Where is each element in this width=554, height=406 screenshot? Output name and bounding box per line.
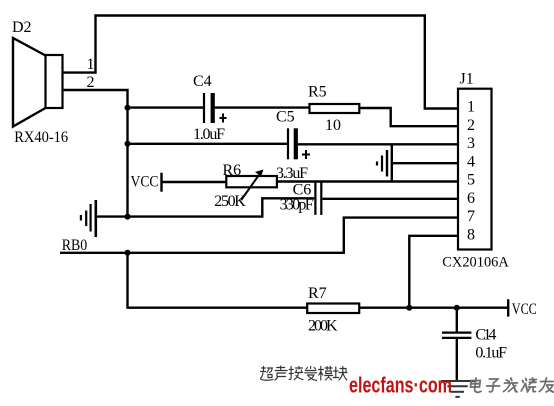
ground tie line pins3-5 [391, 144, 393, 183]
junction dot at ground rail [125, 214, 131, 220]
svg-text:R5: R5 [308, 84, 327, 101]
capacitor C6 [280, 182, 322, 215]
title 超声接受模块 (hand-drawn strokes) [261, 366, 348, 381]
svg-text:C4: C4 [193, 73, 212, 90]
junction dot at C4 input [125, 105, 131, 111]
svg-text:200K: 200K [308, 318, 338, 335]
svg-text:4: 4 [467, 153, 475, 170]
svg-text:2: 2 [87, 74, 95, 91]
svg-text:1.0uF: 1.0uF [193, 126, 225, 143]
svg-text:7: 7 [467, 208, 475, 225]
ground bottom right [441, 381, 475, 397]
char 超 [261, 367, 274, 381]
svg-text:5: 5 [467, 172, 475, 189]
wire VCC to R6 [162, 181, 226, 183]
svg-text:J1: J1 [460, 71, 474, 88]
svg-text:250K: 250K [214, 193, 246, 210]
char 块 [333, 367, 347, 381]
char 烧 [521, 378, 537, 392]
svg-text:CX20106A: CX20106A [442, 255, 509, 271]
ground left [81, 200, 96, 237]
char 声 [275, 366, 287, 380]
wire J1 pin8 down [409, 236, 458, 308]
svg-text:RB0: RB0 [62, 237, 87, 254]
connector J1 [442, 71, 509, 271]
wire R7 to VCC [359, 307, 507, 309]
svg-text:8: 8 [467, 226, 475, 243]
svg-text:1: 1 [467, 99, 475, 116]
char 子 [486, 379, 500, 392]
watermark 电子发烧友 (hand-drawn strokes, gray) [470, 378, 554, 392]
wire R6 to J1 pin5 [277, 180, 458, 182]
junction dot pin8/R7 [406, 305, 412, 311]
wire C14 top [456, 308, 458, 332]
svg-text:0.1uF: 0.1uF [475, 345, 507, 362]
ground at J1 pin4 [377, 150, 387, 177]
svg-text:1: 1 [87, 56, 95, 73]
wire RB0 row [60, 218, 458, 253]
svg-text:3.3uF: 3.3uF [276, 165, 308, 182]
wire J1 pin4 [392, 162, 458, 164]
svg-text:330pF: 330pF [280, 197, 314, 214]
svg-text:3: 3 [467, 135, 475, 152]
char 友 [539, 378, 554, 392]
junction dot at C5 input [125, 141, 131, 147]
junction dot C14/VCC [454, 305, 460, 311]
wire R5 to J1 pin2 [359, 108, 458, 126]
char 发 [503, 378, 518, 392]
resistor R5 [308, 84, 359, 135]
VCC terminal right [508, 299, 537, 318]
svg-text:6: 6 [467, 190, 475, 207]
speaker D2 labels [12, 19, 95, 146]
wire C5 row [128, 143, 288, 145]
polarity + of C4 [220, 114, 227, 123]
VCC terminal left [131, 173, 162, 192]
wire pin1 speaker to vertical [63, 16, 459, 109]
speaker D2 body [46, 55, 63, 108]
svg-text:D2: D2 [12, 19, 32, 36]
char 接 [289, 367, 303, 380]
watermark elecfans.com [349, 373, 452, 398]
char 受 [305, 367, 317, 381]
svg-text:VCC: VCC [131, 174, 159, 191]
svg-text:R7: R7 [308, 285, 327, 302]
polarity + of C5 [302, 150, 310, 159]
svg-text:C14: C14 [475, 327, 496, 344]
char 模 [319, 367, 333, 381]
svg-text:2: 2 [467, 117, 475, 134]
wire C5 to J1 pin3 [298, 143, 458, 145]
speaker D2 horn [13, 38, 46, 127]
junction dot at RB0 node [125, 250, 131, 256]
capacitor C4 [193, 73, 227, 143]
svg-text:elecfans·com: elecfans·com [349, 373, 452, 398]
svg-text:C5: C5 [276, 109, 295, 126]
char 电 [470, 378, 483, 392]
svg-text:10: 10 [325, 117, 341, 134]
capacitor C14 [442, 327, 507, 362]
svg-text:R6: R6 [223, 162, 242, 179]
capacitor C5 [276, 109, 310, 183]
svg-text:RX40-16: RX40-16 [14, 129, 68, 146]
svg-text:VCC: VCC [512, 301, 537, 318]
potentiometer R6 [214, 162, 277, 210]
wire bus down to R7 [128, 253, 308, 308]
wire pin2 speaker to bus [63, 90, 128, 217]
wire C4 row [128, 106, 204, 108]
resistor R7 [307, 285, 359, 335]
wire C4 to R5 [215, 106, 310, 108]
wire C6 to J1 pin6 [322, 198, 458, 200]
wiper arrow of R6 [241, 174, 260, 201]
wire C14 bottom to ground [456, 339, 458, 382]
wire ground row to C6 [97, 198, 314, 216]
